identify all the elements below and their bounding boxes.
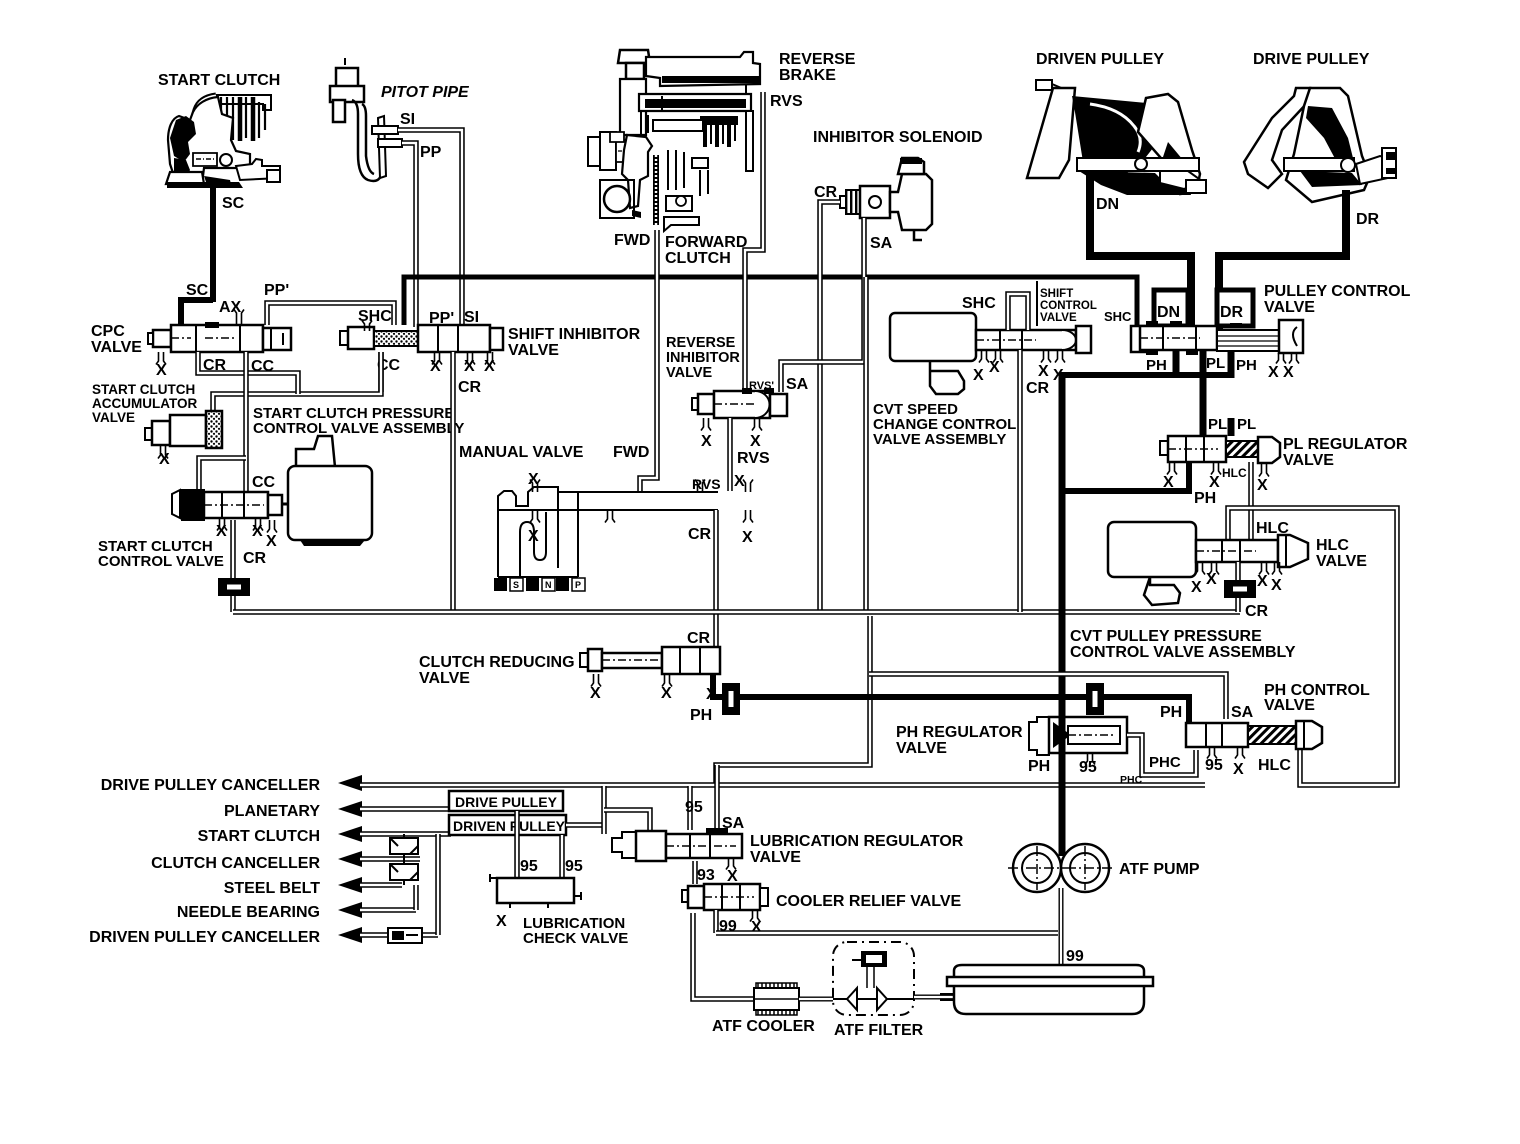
svg-text:DRIVE PULLEY: DRIVE PULLEY <box>1253 51 1370 68</box>
PH thick from pulley control valve <box>1173 350 1180 378</box>
svg-text:CR: CR <box>1245 603 1269 620</box>
svg-text:VALVE: VALVE <box>750 849 801 866</box>
svg-text:INHIBITOR SOLENOID: INHIBITOR SOLENOID <box>813 129 983 146</box>
vertical connector steel belt to needle bearing <box>413 885 419 910</box>
cooler feed pipe <box>693 913 754 999</box>
hlc solenoid <box>1108 522 1196 605</box>
check symbol clutch canceller to steel belt <box>390 859 418 885</box>
svg-text:X: X <box>989 359 1000 376</box>
driven pulley box connector <box>566 822 604 828</box>
svg-text:PP: PP <box>420 144 442 161</box>
95 stub ph regulator <box>1085 753 1095 765</box>
PH trunk thick vertical <box>1059 372 1066 856</box>
svg-text:93: 93 <box>697 867 715 884</box>
svg-text:VALVE: VALVE <box>896 740 947 757</box>
PH2 thick stub pulley control <box>1228 350 1235 378</box>
svg-text:95: 95 <box>1079 759 1097 776</box>
CR pipe manual valve to clutch reducing valve <box>713 510 719 648</box>
svg-text:FWD: FWD <box>613 444 649 461</box>
svg-text:PULLEY CONTROL: PULLEY CONTROL <box>1264 283 1411 300</box>
DR thick line <box>1219 190 1346 330</box>
svg-text:ATF PUMP: ATF PUMP <box>1119 861 1200 878</box>
svg-text:X: X <box>464 358 475 375</box>
svg-text:95: 95 <box>565 858 583 875</box>
CR plug under hlc valve <box>1224 580 1256 598</box>
svg-text:X: X <box>1191 579 1202 596</box>
SA pipe from inhibitor solenoid <box>781 218 864 392</box>
X stub lube regulator <box>726 858 736 870</box>
RVS pipe from reverse brake <box>745 92 763 392</box>
shift control solenoid <box>890 313 976 394</box>
svg-text:CR: CR <box>687 630 711 647</box>
95 pipe to check valve left <box>514 811 520 878</box>
ATF pump <box>1008 844 1114 892</box>
ATF cooler <box>754 983 799 1015</box>
reverse inhibitor valve stubs <box>701 418 711 431</box>
svg-text:PHC: PHC <box>1120 774 1143 786</box>
arrow DRIVE PULLEY CANCELLER <box>338 775 362 791</box>
svg-text:SHIFT: SHIFT <box>1040 288 1073 300</box>
manual valve body <box>498 487 718 577</box>
svg-text:VALVE: VALVE <box>419 670 470 687</box>
svg-text:X: X <box>1038 363 1049 380</box>
bottom rail line <box>233 609 1240 615</box>
svg-text:LUBRICATION REGULATOR: LUBRICATION REGULATOR <box>750 833 964 850</box>
pipe cooler to filter <box>799 997 833 1002</box>
PH thick line clutch reducing to PH control <box>713 674 1189 726</box>
arrow DRIVEN PULLEY CANCELLER <box>338 927 362 943</box>
svg-text:PL: PL <box>1206 355 1225 372</box>
svg-text:PH: PH <box>1236 357 1257 374</box>
svg-text:SC: SC <box>222 195 245 212</box>
PH trunk over ph regulator <box>1059 700 1066 856</box>
svg-text:REVERSE: REVERSE <box>666 335 736 351</box>
svg-text:RVS: RVS <box>737 450 770 467</box>
svg-text:ATF COOLER: ATF COOLER <box>712 1018 815 1035</box>
reverse inhibitor valve spool <box>692 388 787 418</box>
vertical connector start clutch to driven pulley canceller <box>435 834 441 935</box>
svg-text:FWD: FWD <box>614 232 650 249</box>
svg-text:P: P <box>575 580 581 590</box>
95 pipe to check valve right <box>559 835 565 878</box>
svg-text:FORWARD: FORWARD <box>665 234 747 251</box>
main line PP to pulley control valve <box>404 277 1137 330</box>
svg-text:CLUTCH CANCELLER: CLUTCH CANCELLER <box>151 855 320 872</box>
svg-text:DRIVEN PULLEY: DRIVEN PULLEY <box>453 818 566 834</box>
FWD pipe from forward clutch <box>640 230 657 491</box>
svg-text:CC: CC <box>252 474 276 491</box>
accumulator X stub <box>158 446 168 459</box>
svg-text:STEEL BELT: STEEL BELT <box>224 880 321 897</box>
svg-text:X: X <box>701 433 712 450</box>
svg-text:VALVE: VALVE <box>508 342 559 359</box>
CR pipe from hlc valve <box>1235 562 1241 612</box>
svg-text:X: X <box>430 358 441 375</box>
svg-text:DN: DN <box>1096 196 1119 213</box>
CR pipe from shift inhibitor down <box>450 352 456 612</box>
svg-text:VALVE: VALVE <box>1316 553 1367 570</box>
cvt speed change assembly box left edge <box>863 277 869 612</box>
svg-text:CPC: CPC <box>91 323 125 340</box>
svg-text:DRIVEN PULLEY CANCELLER: DRIVEN PULLEY CANCELLER <box>89 929 320 946</box>
valve symbol driven pulley canceller <box>388 928 422 943</box>
line clutch canceller <box>360 856 420 862</box>
svg-text:CLUTCH: CLUTCH <box>665 250 731 267</box>
svg-text:PL: PL <box>1237 416 1256 433</box>
svg-text:PITOT PIPE: PITOT PIPE <box>381 84 470 101</box>
ATF filter internals <box>833 952 914 1010</box>
AX port stub <box>234 310 244 326</box>
CPC CR pipe <box>198 352 298 394</box>
svg-text:COOLER RELIEF VALVE: COOLER RELIEF VALVE <box>776 893 962 910</box>
svg-text:X: X <box>156 362 167 379</box>
svg-text:X: X <box>750 433 761 450</box>
99 return line to pump <box>716 930 1058 936</box>
line steel belt <box>360 882 402 888</box>
svg-text:HLC: HLC <box>1222 466 1247 480</box>
pipe filter to pan <box>914 995 954 1000</box>
DN port box <box>1154 290 1188 326</box>
CR pipe from shift control valve <box>1017 350 1023 612</box>
svg-text:PH: PH <box>1028 758 1050 775</box>
hlc valve bottom stubs <box>1195 562 1205 575</box>
shift control label box left border <box>1036 281 1038 326</box>
svg-text:X: X <box>1268 364 1279 381</box>
svg-text:CONTROL VALVE: CONTROL VALVE <box>98 553 224 570</box>
99 pipe cooler relief <box>713 910 719 933</box>
svg-text:SHIFT INHIBITOR: SHIFT INHIBITOR <box>508 326 641 343</box>
svg-text:SA: SA <box>870 235 893 252</box>
svg-text:VALVE: VALVE <box>92 410 135 425</box>
svg-text:BRAKE: BRAKE <box>779 67 836 84</box>
svg-text:X: X <box>727 868 738 885</box>
svg-text:PL: PL <box>1208 416 1227 433</box>
HLC pipe PL regulator to HLC valve <box>1248 462 1254 540</box>
svg-text:START CLUTCH: START CLUTCH <box>92 382 195 397</box>
svg-text:X: X <box>484 358 495 375</box>
svg-text:X: X <box>973 367 984 384</box>
svg-text:CR: CR <box>814 184 838 201</box>
svg-text:X: X <box>528 528 539 545</box>
svg-text:X: X <box>266 533 277 550</box>
PP' pipe CPC to shift inhibitor valve <box>267 303 394 325</box>
PH thick from PL regulator <box>1062 462 1189 491</box>
start clutch pictorial <box>166 95 280 188</box>
line planetary <box>360 806 451 812</box>
svg-text:DRIVE PULLEY CANCELLER: DRIVE PULLEY CANCELLER <box>101 777 321 794</box>
svg-text:CR: CR <box>1026 380 1050 397</box>
PL thick from pulley control valve <box>1200 350 1207 436</box>
bottom 95 rail <box>362 782 1205 788</box>
svg-text:X: X <box>1257 573 1268 590</box>
ATF filter dashed box <box>833 942 914 1015</box>
line driven pulley canceller <box>360 932 438 938</box>
svg-text:DN: DN <box>1157 304 1180 321</box>
svg-text:PLANETARY: PLANETARY <box>224 803 320 820</box>
svg-text:95: 95 <box>520 858 538 875</box>
svg-text:X: X <box>1206 571 1217 588</box>
svg-text:VALVE: VALVE <box>1040 312 1077 324</box>
svg-text:SC: SC <box>186 282 209 299</box>
line start clutch <box>360 831 451 837</box>
drive pulley box <box>449 791 563 811</box>
svg-text:DRIVEN PULLEY: DRIVEN PULLEY <box>1036 51 1164 68</box>
clutch reducing valve spool <box>580 647 720 674</box>
svg-text:CONTROL VALVE ASSEMBLY: CONTROL VALVE ASSEMBLY <box>253 420 464 437</box>
svg-text:X: X <box>1257 477 1268 494</box>
shift inhibitor valve spool <box>340 325 503 352</box>
svg-text:START CLUTCH: START CLUTCH <box>158 72 280 89</box>
svg-text:SA: SA <box>1231 704 1254 721</box>
svg-text:CR: CR <box>243 550 267 567</box>
shift control valve spool <box>976 326 1091 353</box>
svg-text:SI: SI <box>464 309 479 326</box>
svg-text:X: X <box>528 471 539 488</box>
svg-text:CHECK VALVE: CHECK VALVE <box>523 930 628 947</box>
svg-text:VALVE: VALVE <box>1283 452 1334 469</box>
drive pulley pictorial <box>1244 88 1396 202</box>
svg-text:N: N <box>545 580 552 590</box>
svg-text:99: 99 <box>1066 948 1084 965</box>
SHC stub shift inhibitor <box>362 321 372 332</box>
lubrication regulator valve spool <box>612 828 742 861</box>
inhibitor solenoid pictorial <box>840 158 932 240</box>
arrow START CLUTCH <box>338 826 362 842</box>
svg-text:INHIBITOR: INHIBITOR <box>666 350 740 366</box>
arrow PLANETARY <box>338 801 362 817</box>
pump suction pipe <box>1059 888 1064 978</box>
svg-text:VALVE ASSEMBLY: VALVE ASSEMBLY <box>873 431 1006 448</box>
svg-text:REVERSE: REVERSE <box>779 51 856 68</box>
svg-text:X: X <box>1271 577 1282 594</box>
start clutch accumulator valve spool <box>145 411 222 448</box>
SHC stub on shift control valve <box>1008 294 1028 330</box>
svg-text:DRIVE PULLEY: DRIVE PULLEY <box>455 794 558 810</box>
clutch reducing valve stubs <box>591 674 601 687</box>
svg-text:95: 95 <box>685 799 703 816</box>
svg-text:ACCUMULATOR: ACCUMULATOR <box>92 396 197 411</box>
svg-text:PHC: PHC <box>1149 754 1181 771</box>
lubrication check valve body <box>490 874 581 908</box>
ph control valve bottom stubs <box>1207 747 1217 759</box>
shift control valve bottom stubs <box>979 350 989 363</box>
line needle bearing <box>360 907 416 913</box>
arrow NEEDLE BEARING <box>338 902 362 918</box>
DR port box <box>1217 290 1253 326</box>
CR plug symbol <box>218 578 250 596</box>
CPC CC pipe down <box>243 352 249 500</box>
svg-text:CONTROL: CONTROL <box>1040 300 1097 312</box>
CPC valve spool <box>148 322 291 352</box>
cvt pulley pressure box top right <box>1228 508 1397 785</box>
manual valve top stubs <box>530 480 540 493</box>
svg-text:95: 95 <box>1205 757 1223 774</box>
svg-text:VALVE: VALVE <box>1264 299 1315 316</box>
svg-text:PP': PP' <box>264 282 289 299</box>
svg-text:MANUAL VALVE: MANUAL VALVE <box>459 444 584 461</box>
svg-text:SI: SI <box>400 111 415 128</box>
PP pipe from pitot <box>378 139 402 147</box>
pulley control valve spool <box>1131 320 1303 355</box>
SI pipe from pitot <box>372 126 398 134</box>
svg-text:SHC: SHC <box>1104 309 1132 324</box>
svg-text:PH: PH <box>1194 490 1216 507</box>
RVS pipe to manual valve <box>727 418 733 491</box>
start clutch control valve spool <box>172 490 282 520</box>
95 port pipe lube regulator <box>687 786 693 830</box>
CC branch to valve left port <box>199 458 246 490</box>
accumulator feed pipe <box>213 352 381 413</box>
PL regulator bottom stubs <box>1167 462 1177 475</box>
pulley control valve bottom stubs <box>1276 353 1286 364</box>
arrow CLUTCH CANCELLER <box>338 851 362 867</box>
svg-text:CVT PULLEY PRESSURE: CVT PULLEY PRESSURE <box>1070 628 1262 645</box>
svg-text:X: X <box>590 685 601 702</box>
svg-text:VALVE: VALVE <box>91 339 142 356</box>
driven pulley pictorial <box>1027 80 1206 195</box>
CPC X port stub <box>156 352 166 365</box>
svg-text:X: X <box>661 685 672 702</box>
cooler relief valve spool <box>682 884 768 910</box>
shift inhibitor valve bottom stubs <box>432 352 442 365</box>
SA port pipe lube regulator <box>714 765 720 830</box>
start clutch control valve stubs <box>217 518 227 531</box>
ph regulator valve spool <box>1029 717 1127 755</box>
svg-text:X: X <box>496 913 507 930</box>
CR pipe down from sccv <box>230 520 236 612</box>
svg-text:X: X <box>159 451 170 468</box>
svg-text:X: X <box>1283 364 1294 381</box>
svg-text:ATF FILTER: ATF FILTER <box>834 1022 924 1039</box>
svg-text:CR: CR <box>688 526 712 543</box>
PHC pipe <box>1127 735 1196 775</box>
svg-text:X: X <box>252 523 263 540</box>
SC line from start clutch <box>210 184 216 302</box>
svg-text:VALVE: VALVE <box>666 365 713 381</box>
svg-text:HLC: HLC <box>1258 757 1291 774</box>
CR pipe from inhibitor solenoid <box>820 202 840 612</box>
svg-text:CONTROL VALVE ASSEMBLY: CONTROL VALVE ASSEMBLY <box>1070 644 1296 661</box>
hlc valve spool <box>1196 535 1308 567</box>
svg-text:SHC: SHC <box>962 295 996 312</box>
lube valve left feed <box>604 810 650 830</box>
svg-text:DR: DR <box>1220 304 1244 321</box>
vertical x604 <box>601 786 607 834</box>
cvt pulley pressure box inner line <box>869 674 1226 719</box>
arrow STEEL BELT <box>338 877 362 893</box>
svg-text:X: X <box>1233 761 1244 778</box>
check symbol start clutch to clutch canceller <box>390 834 418 859</box>
DN thick line <box>1090 170 1191 326</box>
reverse brake forward clutch pictorial <box>588 50 760 231</box>
svg-text:CLUTCH REDUCING: CLUTCH REDUCING <box>419 654 575 671</box>
svg-text:SA: SA <box>786 376 809 393</box>
svg-text:PH: PH <box>690 707 712 724</box>
svg-text:HLC: HLC <box>1316 537 1349 554</box>
svg-text:START CLUTCH: START CLUTCH <box>198 828 320 845</box>
PH line plug 1 <box>722 683 740 715</box>
cvt pulley pressure box left part <box>716 616 870 785</box>
svg-text:X: X <box>742 529 753 546</box>
svg-text:RVS: RVS <box>770 93 803 110</box>
svg-text:NEEDLE BEARING: NEEDLE BEARING <box>177 904 320 921</box>
svg-text:PH: PH <box>1146 357 1167 374</box>
oil pan <box>940 965 1153 1014</box>
93 pipe lube regulator to cooler relief <box>692 861 698 884</box>
svg-text:DR: DR <box>1356 211 1380 228</box>
X stub cooler relief <box>750 910 760 922</box>
ph control valve spool <box>1186 721 1322 749</box>
svg-text:S: S <box>513 580 519 590</box>
pitot pipe pictorial <box>330 58 386 181</box>
line drive pulley canceller <box>360 782 362 788</box>
svg-text:PP': PP' <box>429 310 454 327</box>
manual valve bottom stubs <box>530 510 540 523</box>
svg-text:PH REGULATOR: PH REGULATOR <box>896 724 1023 741</box>
svg-text:CR: CR <box>458 379 482 396</box>
manual valve position boxes <box>494 578 585 591</box>
svg-text:VALVE: VALVE <box>1264 697 1315 714</box>
svg-text:AX: AX <box>219 299 242 316</box>
svg-text:RVS: RVS <box>692 476 721 492</box>
svg-text:PL REGULATOR: PL REGULATOR <box>1283 436 1408 453</box>
PH line plug 2 <box>1086 683 1104 715</box>
svg-text:PH: PH <box>1160 704 1182 721</box>
PL regulator valve spool <box>1160 436 1280 463</box>
svg-text:X: X <box>216 523 227 540</box>
svg-text:X: X <box>1209 474 1220 491</box>
start clutch pressure control solenoid <box>282 436 372 546</box>
CC pipe under shift inhibitor <box>378 352 384 392</box>
svg-text:X: X <box>734 473 745 490</box>
driven pulley box <box>449 815 566 835</box>
